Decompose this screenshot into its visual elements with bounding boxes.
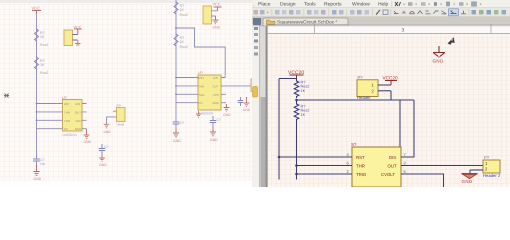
svg-text:GND: GND bbox=[84, 140, 92, 144]
svg-text:P?: P? bbox=[484, 155, 490, 160]
node (TRIG junction) bbox=[295, 173, 298, 176]
svg-text:Res2: Res2 bbox=[40, 71, 48, 75]
capacitor C? (right, near edge header) bbox=[238, 97, 244, 106]
folder icon on tab bbox=[267, 20, 276, 25]
sheet background with grid bbox=[267, 34, 510, 188]
header P? (output connector of circuit A) bbox=[113, 104, 125, 127]
wire : OUT to edge header bbox=[226, 85, 251, 87]
svg-text:U?: U? bbox=[198, 71, 203, 75]
wire : mid rail vertical bbox=[175, 0, 177, 118]
panel edge buttons (left of strip) bbox=[254, 27, 258, 56]
wire : IC A pin 4 to rail bbox=[37, 128, 63, 130]
grey splitter strip bbox=[259, 24, 267, 187]
svg-text:VCC: VCC bbox=[76, 119, 82, 123]
timer U? (IC B 555) bbox=[198, 71, 221, 116]
svg-text:CV: CV bbox=[64, 127, 68, 131]
resistor R? (second on mid rail) bbox=[174, 34, 188, 49]
ground (bottom of left rail) bbox=[33, 165, 41, 181]
menu bar items bbox=[253, 1, 389, 7]
svg-text:DIS: DIS bbox=[76, 102, 81, 106]
svg-text:1K: 1K bbox=[301, 113, 306, 117]
ground (under IC A right pin) bbox=[84, 129, 92, 144]
ground GND (floating, being placed) bbox=[433, 46, 446, 64]
svg-text:TRG: TRG bbox=[64, 119, 70, 123]
node (junction pin 1) bbox=[175, 77, 177, 79]
svg-text:GND: GND bbox=[243, 108, 251, 112]
resistor R? (lower, on left rail) bbox=[35, 57, 49, 75]
svg-text:SquarewaveCircuit.SchDoc *: SquarewaveCircuit.SchDoc * bbox=[277, 20, 337, 25]
svg-text:U?: U? bbox=[62, 96, 67, 100]
svg-text:GND: GND bbox=[99, 163, 107, 167]
wire : header pin 1 stub bbox=[378, 84, 391, 86]
header P? (2-pin, VCC jumper) bbox=[357, 75, 378, 100]
resistor R? (top of mid rail) bbox=[174, 2, 188, 17]
wire : IC A right pin stubs bbox=[82, 104, 87, 129]
svg-text:VCC: VCC bbox=[32, 6, 41, 11]
node (junction on mid rail) bbox=[175, 27, 177, 29]
svg-text:1K: 1K bbox=[40, 35, 45, 39]
svg-text:P?: P? bbox=[358, 75, 364, 80]
svg-text:1K: 1K bbox=[180, 8, 185, 12]
vertical panel tab (yellow) bbox=[253, 87, 258, 98]
capacitor C? (bottom of left rail) bbox=[33, 155, 45, 166]
svg-text:VCC: VCC bbox=[74, 26, 82, 30]
node (cursor mark at far left) bbox=[4, 94, 9, 98]
node (junction IC A pin 3) bbox=[36, 119, 38, 121]
node (junction pin 3) bbox=[175, 93, 177, 95]
svg-text:GND: GND bbox=[34, 177, 42, 181]
wire : THR horizontal bbox=[297, 165, 346, 167]
wire : IC A pin 2 to rail bbox=[37, 111, 63, 113]
header P? (partially visible at panel edge) bbox=[251, 79, 258, 92]
node (THR junction) bbox=[295, 164, 298, 167]
svg-text:CV: CV bbox=[199, 101, 203, 105]
wire : header pin 2 stub bbox=[378, 90, 391, 92]
svg-text:Window: Window bbox=[352, 1, 370, 7]
wire : IC B pin 1 to rail bbox=[176, 77, 198, 79]
svg-text:GND: GND bbox=[462, 179, 473, 184]
svg-text:GND: GND bbox=[213, 101, 219, 105]
svg-text:Header: Header bbox=[357, 95, 371, 100]
wire : IC B pin 4 to rail bbox=[176, 102, 198, 104]
node (divider junction) bbox=[295, 99, 298, 102]
wire : IC A pin 1 to rail bbox=[37, 103, 63, 105]
wire : header C pin 2 drop bbox=[107, 117, 114, 123]
svg-text:1K: 1K bbox=[40, 63, 45, 67]
header P? (output, Header 2) bbox=[483, 155, 501, 178]
svg-text:THR: THR bbox=[356, 164, 365, 169]
svg-text:10n: 10n bbox=[40, 162, 46, 166]
svg-text:VCC20: VCC20 bbox=[383, 76, 399, 81]
header P? (top connector of circuit B) bbox=[203, 6, 218, 24]
svg-text:THR: THR bbox=[64, 110, 70, 114]
svg-text:Tools: Tools bbox=[304, 1, 316, 7]
ground GND (output header) bbox=[462, 174, 478, 184]
capacitor C? (below IC A) bbox=[99, 144, 109, 155]
power port VCC (top right of header B) bbox=[213, 3, 222, 11]
wire : pin 2 drop to ground bbox=[469, 170, 471, 174]
wire : IC B right pin stubs bbox=[221, 78, 226, 103]
ground (below header B pin 2) bbox=[213, 16, 221, 30]
svg-text:C?: C? bbox=[105, 145, 109, 149]
svg-text:OUT: OUT bbox=[213, 84, 219, 88]
wire : staircase from divider node to DIS bbox=[176, 28, 225, 78]
ground (below header C) bbox=[104, 123, 112, 134]
svg-text:Res2: Res2 bbox=[180, 13, 188, 17]
svg-text:1K: 1K bbox=[180, 40, 185, 44]
svg-text:TRG: TRG bbox=[199, 93, 205, 97]
pin stubs right bbox=[401, 157, 409, 174]
mouse cursor bbox=[448, 37, 455, 45]
power port VCC (top of left rail) bbox=[32, 6, 42, 15]
svg-text:VCC: VCC bbox=[213, 93, 219, 97]
svg-text:GND: GND bbox=[75, 127, 81, 131]
svg-text:THR: THR bbox=[199, 84, 205, 88]
svg-text:LM555CN: LM555CN bbox=[63, 133, 78, 137]
svg-text:RST: RST bbox=[64, 102, 70, 106]
svg-text:LM555CN: LM555CN bbox=[199, 112, 214, 116]
svg-text:3: 3 bbox=[402, 27, 405, 33]
capacitor C? (below IC B) bbox=[210, 116, 221, 127]
wire : header 2 pin 2 stub bbox=[470, 169, 483, 171]
svg-text:GND: GND bbox=[173, 139, 181, 143]
svg-text:S?: S? bbox=[351, 142, 357, 147]
resistor R? (upper, on left rail) bbox=[35, 29, 49, 47]
node (junction IC A pin 1) bbox=[36, 103, 38, 105]
wire : RST horizontal bbox=[279, 156, 346, 158]
window chrome background bbox=[252, 0, 510, 17]
capacitor C? (bottom of mid rail) bbox=[173, 118, 184, 128]
svg-text:DIS: DIS bbox=[389, 155, 396, 160]
wire : IC A pin 3 to rail bbox=[37, 119, 63, 121]
power port VCC (right of header) bbox=[74, 26, 82, 35]
svg-text:OUT: OUT bbox=[388, 164, 397, 169]
wire : TRIG horizontal bbox=[297, 173, 346, 175]
svg-text:DIS: DIS bbox=[213, 76, 218, 80]
sheet zone border row bbox=[268, 24, 510, 187]
svg-text:CVOLT: CVOLT bbox=[381, 172, 395, 177]
svg-text:OUT: OUT bbox=[75, 110, 81, 114]
svg-text:Head: Head bbox=[117, 123, 125, 127]
svg-text:GND: GND bbox=[223, 113, 231, 117]
main toolbar icons row bbox=[254, 9, 507, 16]
op-amp/timer U? (IC A 555) bbox=[62, 96, 82, 137]
ground (below capacitor under IC A) bbox=[99, 155, 107, 168]
svg-text:GND: GND bbox=[213, 26, 221, 30]
svg-text:RST: RST bbox=[356, 155, 365, 160]
ground (below IC B capacitor) bbox=[210, 127, 218, 142]
wire : THR/TRIG rail vertical bbox=[296, 121, 298, 180]
svg-text:.: . bbox=[253, 1, 254, 7]
wire : IC B pin 3 to rail bbox=[176, 93, 198, 95]
wire : left rail vertical bbox=[36, 14, 38, 159]
svg-text:RST: RST bbox=[199, 76, 205, 80]
wire : RST rail vertical bbox=[278, 79, 280, 180]
svg-text:GND: GND bbox=[210, 138, 218, 142]
ground (near edge header) bbox=[243, 97, 251, 112]
wire : header pin 2 down to divider net bbox=[390, 91, 392, 100]
node (RST junction) bbox=[278, 156, 281, 159]
node (junction pin 2) bbox=[175, 85, 177, 87]
svg-text:C?: C? bbox=[217, 118, 221, 122]
svg-text:Header 2: Header 2 bbox=[483, 173, 501, 178]
wire : long horizontal divider net to DIS bbox=[297, 99, 415, 101]
ground (right of IC B, below DIS stub) bbox=[223, 104, 231, 117]
wire : OUT to header 2 bbox=[409, 165, 483, 167]
svg-text:GND: GND bbox=[433, 59, 444, 64]
svg-text:Res2: Res2 bbox=[180, 45, 188, 49]
wire : CVOLT down bbox=[409, 174, 444, 187]
ground (bottom of mid rail) bbox=[173, 128, 181, 143]
wire : DIS drop bbox=[409, 100, 414, 157]
power port VCC20 (left rail) bbox=[288, 70, 304, 79]
node (junction IC A pin 2) bbox=[36, 111, 38, 113]
svg-text:Reports: Reports bbox=[324, 1, 342, 7]
svg-text:VCC: VCC bbox=[213, 3, 221, 7]
svg-text:Res2: Res2 bbox=[40, 43, 48, 47]
svg-text:Help: Help bbox=[378, 1, 389, 7]
svg-text:TRIG: TRIG bbox=[356, 172, 367, 177]
wire : IC B pin 2 to rail bbox=[176, 85, 198, 87]
resistor R2 Res2 1K bbox=[294, 100, 309, 121]
document tab bar bbox=[252, 18, 510, 26]
ground (under IC B left corner) bbox=[196, 111, 201, 117]
svg-text:GND: GND bbox=[104, 130, 112, 134]
pin stubs left bbox=[346, 157, 353, 174]
svg-text:Place: Place bbox=[258, 1, 271, 7]
wire : tee from VCC20 to RST rail bbox=[279, 78, 297, 80]
ground (below header pin 2) bbox=[75, 40, 81, 45]
header P? (upper small connector) bbox=[64, 30, 78, 46]
resistor R1 Res2 1K bbox=[294, 79, 309, 99]
menu bar right mini-toolbar bbox=[392, 1, 482, 7]
timer U? (555, main) bbox=[346, 142, 410, 187]
svg-text:C?: C? bbox=[180, 121, 184, 125]
power port VCC20 (header) bbox=[383, 76, 399, 86]
svg-text:1K: 1K bbox=[301, 89, 306, 93]
svg-text:Design: Design bbox=[280, 1, 296, 7]
wire : VCC drop to IC top bbox=[399, 100, 401, 147]
